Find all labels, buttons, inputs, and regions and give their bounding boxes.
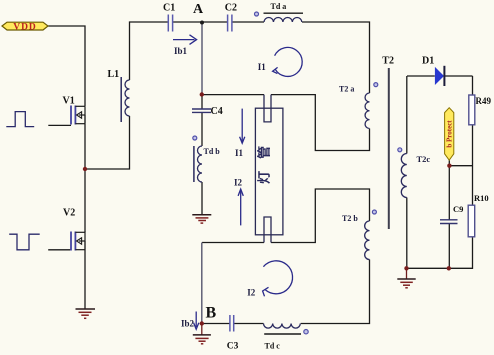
svg-text:V2: V2 (63, 207, 75, 218)
svg-text:A: A (193, 2, 204, 17)
svg-text:Td c: Td c (265, 341, 281, 350)
svg-text:C4: C4 (211, 106, 223, 117)
svg-text:Td a: Td a (271, 2, 287, 11)
svg-text:b Protect: b Protect (446, 120, 454, 148)
svg-text:C9: C9 (453, 204, 463, 214)
svg-text:灯管: 灯管 (256, 134, 271, 184)
svg-text:VDD: VDD (13, 22, 37, 32)
svg-text:I2: I2 (234, 178, 243, 188)
svg-text:Ib2: Ib2 (181, 319, 195, 329)
svg-text:R49: R49 (476, 96, 492, 106)
svg-text:C1: C1 (163, 3, 175, 14)
svg-text:D1: D1 (422, 56, 434, 67)
svg-text:Td b: Td b (204, 147, 221, 156)
svg-text:B: B (206, 305, 217, 322)
svg-text:L1: L1 (108, 69, 120, 80)
svg-text:I2: I2 (247, 288, 256, 298)
svg-text:C2: C2 (225, 3, 237, 14)
svg-text:Ib1: Ib1 (174, 46, 188, 56)
svg-text:I1: I1 (258, 62, 267, 72)
svg-text:R10: R10 (474, 193, 489, 203)
svg-text:V1: V1 (63, 96, 75, 107)
svg-text:T2c: T2c (417, 154, 431, 164)
svg-text:I1: I1 (235, 148, 244, 158)
svg-text:C3: C3 (227, 342, 239, 352)
svg-text:T2 a: T2 a (339, 85, 354, 94)
svg-text:T2 b: T2 b (342, 214, 358, 223)
svg-text:T2: T2 (382, 56, 394, 67)
